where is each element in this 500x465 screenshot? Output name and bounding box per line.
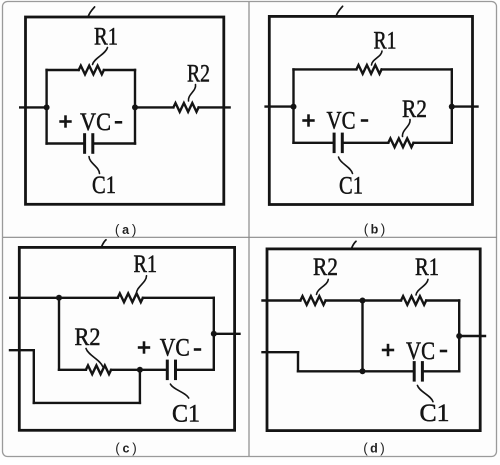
- wire: lower-left terminal stub (d): [263, 351, 299, 353]
- wire: R2 to mid node (d): [326, 299, 363, 301]
- wire: node to R1 (c): [59, 297, 118, 299]
- leader R1 (c): [136, 276, 146, 294]
- svg-text:(: (: [364, 221, 369, 236]
- svg-text:(: (: [115, 441, 120, 456]
- wire: middle vertical (d): [361, 301, 363, 372]
- wire: loop bottom-right segment (b): [414, 142, 452, 144]
- svg-text:): ): [381, 221, 386, 236]
- wire: R1 to right corner (d): [426, 299, 459, 301]
- leader C1 (b): [339, 157, 353, 174]
- leader R2 (b): [402, 120, 410, 137]
- svg-text:): ): [132, 441, 137, 456]
- svg-text:VC: VC: [80, 109, 111, 136]
- wire: loop top-left segment (a): [47, 69, 79, 71]
- svg-text:C1: C1: [339, 173, 363, 200]
- wire: parallel loop right side (a): [134, 70, 136, 144]
- svg-text:): ): [380, 441, 385, 456]
- wire: node to R2 (a): [135, 106, 173, 108]
- svg-text:R1: R1: [134, 251, 158, 278]
- circuit box (c): [19, 247, 234, 430]
- leader R2 (a): [188, 85, 195, 102]
- wire: mid node to R1 (d): [363, 299, 402, 301]
- lead-in tick above box (c): [102, 240, 107, 247]
- svg-text:C1: C1: [172, 400, 200, 427]
- wire: loop bottom-right segment (a): [94, 142, 135, 144]
- plus sign (d): [382, 349, 394, 352]
- wire: lower-left vertical (c): [33, 350, 35, 403]
- capacitor C1 (c): [166, 360, 169, 381]
- wire: lower-left drop (d): [297, 352, 299, 371]
- capacitor C1 (d): [413, 361, 416, 382]
- minus sign (c): [194, 348, 201, 351]
- node B-left: [291, 104, 297, 110]
- wire: bottom return riser (c): [139, 370, 141, 403]
- leader R2 (d): [317, 279, 329, 294]
- leader C1 (c): [170, 384, 188, 398]
- svg-text:R2: R2: [75, 324, 101, 351]
- svg-text:R1: R1: [94, 24, 118, 51]
- wire: right terminal stub (c): [214, 333, 240, 335]
- svg-text:d: d: [370, 442, 378, 456]
- node C-right: [211, 331, 217, 337]
- resistor R1 (d): [401, 296, 426, 305]
- wire: left branch vertical (c): [58, 298, 60, 370]
- resistor R1 (c): [118, 293, 143, 302]
- resistor R1 (a): [79, 66, 104, 75]
- svg-text:R1: R1: [415, 254, 439, 281]
- wire: bottom return (c): [34, 402, 140, 404]
- svg-text:(: (: [115, 222, 120, 237]
- node D-top: [360, 298, 366, 304]
- wire: loop left side (b): [292, 69, 294, 142]
- wire: node to capacitor (c): [140, 369, 167, 371]
- leader C1 (a): [89, 157, 100, 174]
- svg-text:C1: C1: [420, 400, 450, 427]
- panel divider horizontal: [3, 236, 497, 238]
- wire: capacitor to R2 (b): [344, 142, 389, 144]
- svg-text:VC: VC: [327, 107, 356, 134]
- svg-text:R1: R1: [374, 27, 397, 54]
- wire: right side vertical (d): [458, 301, 460, 372]
- leader R1 (b): [372, 51, 383, 65]
- wire: R2 to right terminal (a): [199, 106, 230, 108]
- wire: loop top-left segment (b): [294, 68, 357, 70]
- wire: R2 to node (c): [111, 369, 140, 371]
- wire: loop bottom-left segment (b): [294, 142, 333, 144]
- capacitor C1 (b): [333, 133, 336, 154]
- panel divider vertical: [248, 2, 250, 456]
- resistor R1 (b): [356, 65, 381, 74]
- node C-topleft: [56, 295, 62, 301]
- circuit box (d): [267, 249, 480, 431]
- svg-text:c: c: [123, 442, 130, 456]
- wire: right terminal stub (d): [459, 335, 485, 337]
- lead-in tick above box (a): [88, 7, 94, 16]
- node B-right: [449, 104, 455, 110]
- node C-mid: [137, 367, 143, 373]
- node A-left: [44, 104, 50, 110]
- leader R1 (a): [93, 48, 108, 65]
- resistor R2 (b): [388, 138, 413, 147]
- minus sign (b): [361, 119, 368, 122]
- node A-right: [132, 104, 138, 110]
- wire: left terminal into top wire (c): [10, 297, 59, 299]
- svg-text:R2: R2: [187, 61, 210, 88]
- wire: loop bottom-left segment (a): [47, 142, 84, 144]
- resistor R2 (c): [86, 365, 111, 374]
- wire: lower-left terminal stub (c): [10, 349, 34, 351]
- svg-text:C1: C1: [92, 172, 116, 199]
- svg-text:VC: VC: [160, 335, 190, 362]
- circuit box (b): [269, 16, 472, 204]
- node D-bottom: [360, 368, 366, 374]
- wire: bottom wire to capacitor (d): [298, 370, 414, 372]
- wire: left terminal to R2 (d): [263, 299, 301, 301]
- node D-right: [456, 333, 462, 339]
- circuit box (a): [26, 17, 224, 204]
- svg-text:R2: R2: [313, 254, 338, 281]
- wire: left terminal to node (a): [20, 106, 46, 108]
- minus sign (a): [115, 121, 122, 124]
- svg-text:): ): [132, 222, 137, 237]
- leader C1 (d): [417, 385, 433, 401]
- plus sign (a): [59, 120, 71, 123]
- wire: parallel loop left side (a): [45, 70, 47, 144]
- leader R1 (d): [416, 279, 428, 295]
- svg-text:b: b: [371, 222, 379, 236]
- wire: loop top-right segment (a): [104, 69, 135, 71]
- lead-in tick above box (b): [336, 6, 342, 15]
- wire: right side vertical (c): [213, 298, 215, 370]
- plus sign (b): [302, 119, 314, 122]
- lead-in tick above box (d): [352, 241, 357, 248]
- plus sign (c): [138, 346, 150, 349]
- wire: node to right terminal (b): [452, 105, 478, 107]
- svg-text:(: (: [363, 441, 368, 456]
- wire: loop right side (b): [451, 69, 453, 142]
- leader R2 (c): [86, 349, 103, 367]
- wire: left terminal to node (b): [266, 105, 294, 107]
- wire: branch to R2 (c): [59, 369, 86, 371]
- svg-text:VC: VC: [406, 338, 435, 365]
- wire: R1 to right corner (c): [143, 297, 214, 299]
- resistor R2 (d): [300, 296, 325, 305]
- resistor R2 (a): [173, 103, 198, 112]
- wire: loop top-right segment (b): [382, 68, 452, 70]
- minus sign (d): [440, 350, 447, 353]
- svg-text:a: a: [122, 223, 130, 237]
- wire: capacitor to right corner (d): [424, 370, 459, 372]
- wire: capacitor to right side (c): [177, 369, 214, 371]
- svg-text:R2: R2: [402, 96, 427, 123]
- capacitor C1 (a): [83, 133, 86, 154]
